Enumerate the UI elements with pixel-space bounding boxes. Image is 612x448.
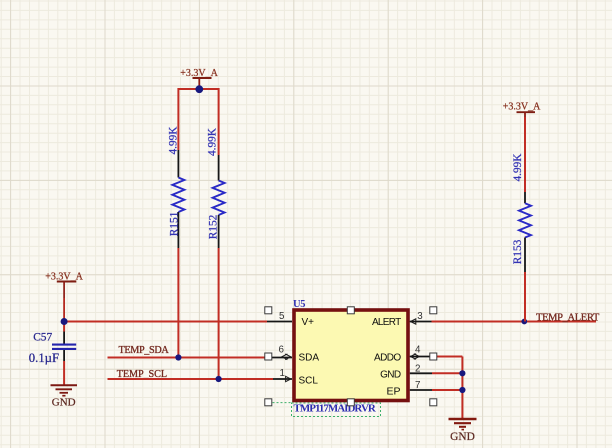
pin arrow SDA (bidir): [282, 354, 291, 360]
svg-text:4.99K: 4.99K: [512, 153, 524, 182]
wire C57 to GND: [63, 361, 65, 385]
wire EP pin 7: [410, 389, 432, 391]
junction dot (V+ node): [61, 318, 68, 325]
wire R152 to SCL: [218, 248, 220, 379]
net label TEMP_SDA + wire: [108, 345, 293, 357]
svg-text:SCL: SCL: [299, 376, 319, 387]
svg-text:SDA: SDA: [299, 353, 320, 364]
svg-text:4.99K: 4.99K: [207, 127, 219, 156]
svg-text:GND: GND: [450, 431, 475, 443]
junction dot (SCL/R152): [216, 376, 222, 382]
wire ALERT net: [410, 321, 432, 323]
capacitor C57: [29, 322, 76, 366]
svg-text:+3.3V_A: +3.3V_A: [503, 102, 541, 113]
svg-text:ADDO: ADDO: [374, 353, 401, 364]
resistor R151: [168, 126, 185, 248]
power port +3.3V_A (right, feeds R153): [503, 102, 541, 119]
svg-text:GND: GND: [380, 370, 401, 381]
junction dot (ALERT/R153): [521, 319, 527, 325]
svg-text:TEMP_SDA: TEMP_SDA: [119, 345, 170, 356]
svg-text:5: 5: [279, 311, 285, 322]
net label TEMP_SCL + wire: [108, 369, 293, 380]
svg-text:GND: GND: [52, 397, 76, 409]
selection handles (8 white squares): [265, 307, 437, 406]
svg-text:R152: R152: [207, 214, 219, 239]
power port +3.3V_A (left, feeds V+/C57): [45, 272, 83, 322]
pin arrow ADDO (input): [410, 354, 419, 360]
svg-text:4.99K: 4.99K: [168, 126, 180, 155]
svg-text:3: 3: [417, 311, 423, 322]
svg-text:R153: R153: [512, 239, 524, 264]
pin arrow SCL (input): [286, 376, 291, 381]
wire GND pin 2: [410, 372, 432, 374]
wire V+ net: [64, 321, 267, 323]
junction dot (EP row): [459, 387, 465, 393]
ground (left): [51, 385, 78, 408]
svg-text:6: 6: [279, 344, 285, 355]
wire R153 to ALERT: [524, 272, 526, 322]
pin arrow ALERT (output): [410, 319, 415, 324]
svg-text:R151: R151: [168, 212, 180, 236]
wire power to R153: [524, 117, 526, 192]
selection outline segment (left of part): [273, 402, 292, 404]
resistor R153: [512, 153, 531, 272]
junction dot (SDA/R151): [175, 354, 181, 360]
svg-text:TMP117MAIDRVR: TMP117MAIDRVR: [294, 403, 377, 415]
wire right vertical to GND: [461, 357, 463, 419]
svg-text:1: 1: [280, 368, 285, 379]
power port +3.3V_A (top, feeds R151/R152): [180, 68, 218, 89]
svg-text:EP: EP: [386, 386, 400, 398]
svg-text:U5: U5: [293, 299, 305, 310]
wire R151 to SDA: [177, 248, 179, 358]
svg-text:V+: V+: [302, 317, 315, 328]
junction dot (top elbow): [195, 85, 203, 93]
ground (right): [449, 419, 477, 443]
svg-text:C57: C57: [33, 331, 52, 343]
wire ADDO net: [410, 356, 432, 358]
selection box (green dashed): [292, 403, 381, 417]
svg-text:TEMP_ALERT: TEMP_ALERT: [536, 312, 600, 323]
wire: top elbow to R151/R152: [178, 89, 218, 155]
svg-text:ALERT: ALERT: [372, 317, 401, 328]
junction dot (GND row): [459, 370, 465, 376]
pin numbers: [279, 311, 424, 391]
resistor R152: [207, 127, 225, 248]
pin names: [299, 317, 402, 398]
IC U5 TMP117 body: [294, 310, 408, 401]
svg-text:0.1µF: 0.1µF: [29, 351, 59, 365]
